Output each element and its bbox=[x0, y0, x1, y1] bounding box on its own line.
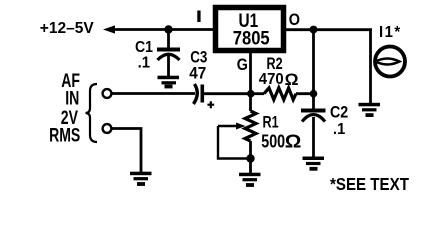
wire C3 to G node bbox=[204, 92, 251, 95]
ground AF bbox=[130, 172, 152, 186]
ground R1 bbox=[239, 173, 261, 187]
svg-text:7805: 7805 bbox=[233, 27, 270, 49]
svg-text:G: G bbox=[237, 56, 248, 74]
svg-text:O: O bbox=[289, 11, 300, 29]
svg-text:Ω: Ω bbox=[285, 132, 302, 153]
svg-text:47: 47 bbox=[189, 64, 206, 83]
lamp I1 bbox=[375, 47, 405, 77]
label AF IN 2V RMS bbox=[49, 70, 80, 146]
label C1 bbox=[135, 38, 153, 56]
label +12-5V bbox=[40, 20, 94, 37]
wire output down to lamp I1 bbox=[369, 30, 372, 104]
node R1 bottom junction bbox=[246, 154, 254, 162]
capacitor C3 bbox=[194, 84, 215, 108]
wire C2 lead bbox=[312, 94, 315, 109]
pin label G bbox=[237, 56, 248, 74]
regulator U1 box bbox=[216, 8, 284, 51]
wire R1 bottom lead bbox=[249, 141, 252, 173]
ground C2 bbox=[303, 157, 325, 171]
label I1* bbox=[379, 24, 402, 42]
ground C1 bbox=[158, 76, 180, 89]
svg-text:Ω: Ω bbox=[285, 69, 299, 89]
potentiometer R1 bbox=[218, 111, 256, 141]
label 7805 bbox=[233, 27, 270, 49]
wire input rail bbox=[110, 28, 214, 31]
wire AF bottom bbox=[112, 129, 142, 173]
label R1 bbox=[263, 113, 279, 132]
wire R1 top lead bbox=[249, 94, 252, 111]
node input junction bbox=[164, 25, 172, 33]
input arrow bbox=[103, 25, 115, 33]
input brace bbox=[86, 84, 98, 142]
svg-text:I1*: I1* bbox=[379, 24, 402, 42]
label 500 ohm bbox=[261, 132, 301, 153]
terminal AF top bbox=[103, 89, 112, 98]
svg-text:*SEE TEXT: *SEE TEXT bbox=[330, 174, 409, 195]
label C3 bbox=[190, 48, 207, 67]
terminal AF bottom bbox=[103, 124, 112, 133]
wire AF top bbox=[112, 92, 196, 95]
node G junction bbox=[247, 90, 255, 98]
label 470 ohm bbox=[259, 69, 299, 89]
svg-text:.1: .1 bbox=[333, 120, 346, 138]
pin label O bbox=[289, 11, 300, 29]
svg-text:RMS: RMS bbox=[49, 124, 80, 146]
svg-text:C2: C2 bbox=[330, 103, 348, 121]
svg-text:R1: R1 bbox=[263, 113, 279, 132]
wire output bbox=[286, 28, 372, 31]
svg-text:+12–5V: +12–5V bbox=[40, 20, 94, 37]
label C2 value .1 bbox=[333, 120, 346, 138]
svg-text:500: 500 bbox=[261, 132, 285, 152]
wire wiper to bottom junction bbox=[218, 126, 251, 159]
svg-text:I: I bbox=[196, 8, 202, 27]
label C2 bbox=[330, 103, 348, 121]
node R2 right junction bbox=[310, 90, 318, 98]
resistor R2 bbox=[251, 88, 314, 100]
wire G pin bbox=[249, 50, 252, 94]
label R2 bbox=[267, 54, 283, 73]
svg-text:.1: .1 bbox=[138, 54, 151, 72]
node output junction bbox=[310, 26, 318, 34]
label C1 value .1 bbox=[138, 54, 151, 72]
capacitor C1 bbox=[157, 48, 180, 77]
svg-text:470: 470 bbox=[259, 71, 284, 89]
wire R2 junction to output bbox=[312, 30, 315, 94]
label U1 bbox=[239, 9, 259, 31]
ground I1 bbox=[359, 103, 381, 117]
pin label I bbox=[196, 8, 202, 27]
wire C1 lead bbox=[167, 30, 170, 50]
label see text bbox=[330, 174, 409, 195]
capacitor C2 bbox=[301, 109, 326, 158]
label C3 value 47 bbox=[189, 64, 206, 83]
